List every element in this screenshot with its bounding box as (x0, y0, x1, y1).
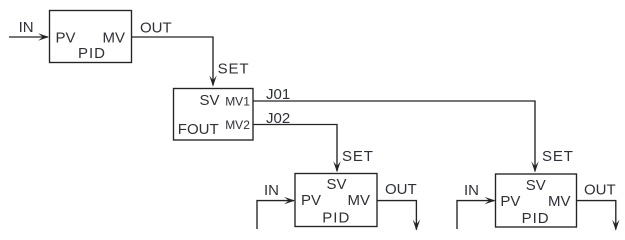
svg-text:SV: SV (327, 176, 347, 193)
svg-text:SV: SV (200, 92, 220, 109)
svg-text:MV: MV (348, 192, 371, 209)
svg-text:OUT: OUT (584, 182, 616, 199)
svg-text:SET: SET (342, 148, 374, 165)
svg-text:OUT: OUT (385, 181, 417, 198)
svg-text:OUT: OUT (140, 20, 172, 37)
svg-text:MV: MV (548, 193, 571, 210)
svg-text:IN: IN (464, 182, 479, 199)
svg-text:PID: PID (78, 45, 106, 62)
svg-text:SET: SET (218, 60, 250, 77)
svg-text:IN: IN (264, 182, 279, 199)
svg-text:SV: SV (526, 177, 546, 194)
svg-text:FOUT: FOUT (178, 121, 219, 138)
svg-text:PID: PID (322, 209, 350, 226)
svg-text:PID: PID (522, 210, 550, 227)
svg-text:MV2: MV2 (225, 118, 250, 132)
svg-text:J01: J01 (266, 86, 290, 103)
svg-text:PV: PV (301, 192, 321, 209)
svg-text:PV: PV (56, 30, 76, 47)
svg-text:SET: SET (542, 148, 574, 165)
svg-text:PV: PV (500, 193, 520, 210)
svg-text:IN: IN (19, 19, 34, 36)
svg-text:J02: J02 (266, 110, 290, 127)
svg-text:MV1: MV1 (225, 94, 250, 108)
